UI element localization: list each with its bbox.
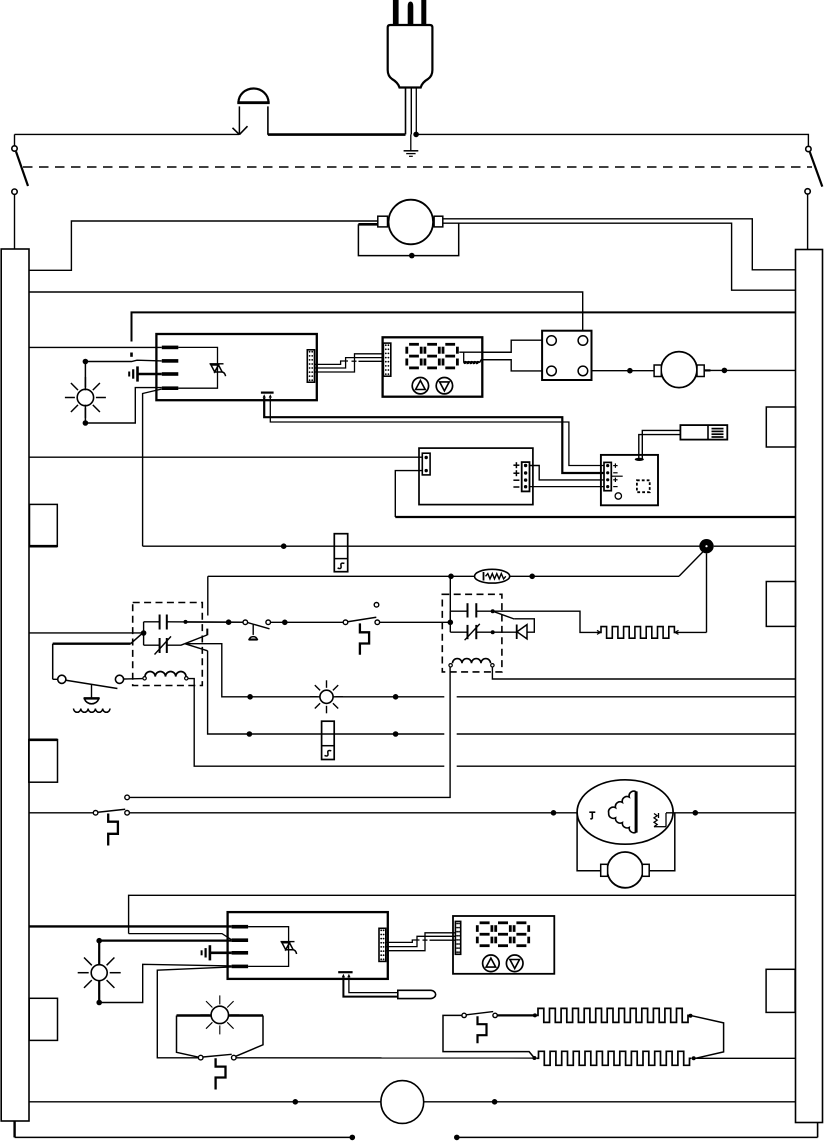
- wire: A4 pin4 to freezer defrost indicator circuit: [157, 967, 231, 1058]
- A1 pin 3: [162, 372, 179, 376]
- A3 mounting hole: [615, 493, 621, 499]
- wire: compressor to right bus: [666, 812, 796, 814]
- wire: L3 top to A4 pin2: [99, 939, 231, 941]
- lamp L1 (fresh food light): [65, 377, 106, 418]
- A1 internal wire loop: [178, 347, 217, 388]
- wire: node down to defrost heater: [706, 553, 708, 632]
- L3 top dot: [96, 938, 102, 944]
- wire: line N1 across top (y=312): [130, 353, 133, 357]
- wire: K1 tip to lamp line y=697: [185, 644, 796, 697]
- wire: bottom line y=1102 left: [29, 1101, 381, 1103]
- left bus connector block LB1: [30, 504, 58, 546]
- L1 bottom junction dot: [83, 420, 89, 426]
- switch S6 (defrost indicator switch): [198, 1054, 236, 1060]
- chassis boundary dashed line: [23, 166, 812, 168]
- wire: S3 to changeover S4: [271, 621, 344, 623]
- K1 top contact output wire: [167, 621, 243, 623]
- wire: oval line drop to relay K1 arm: [207, 576, 209, 615]
- S7 bracket to heater R2: [443, 1015, 534, 1058]
- K1 NO contact: [160, 615, 167, 630]
- right bus connector block RB1: [766, 407, 795, 447]
- wire: K2 NO output to defrost heater R3: [493, 611, 600, 632]
- wire: K2 coil left to thermostat throw: [129, 667, 450, 797]
- K1 NC contact with slash: [155, 636, 172, 654]
- L4 bracket: [177, 1016, 264, 1058]
- A1 pin 1: [162, 346, 179, 350]
- fan M4: [381, 1081, 424, 1124]
- L1 top junction dot: [83, 359, 89, 365]
- R2 start dot: [532, 1056, 536, 1060]
- wire: left bus to A2 pin1: [29, 456, 422, 458]
- changeover switch S4: [343, 603, 379, 625]
- sensor wire A1 to A3 (thin): [270, 398, 604, 466]
- R1 start dot: [533, 1013, 537, 1017]
- wire: A2 pin2 riser: [395, 471, 422, 517]
- wires A2 to A3: [530, 466, 605, 487]
- thermostat S5 (cold control): [93, 795, 129, 815]
- wire: oval fuse line y=576: [208, 575, 679, 577]
- right bus connector block RB3: [766, 969, 795, 1012]
- D2 seven-segment digit 3: [514, 923, 529, 946]
- D1 connector: [383, 343, 390, 376]
- A2 input connector: [422, 453, 430, 475]
- left bus bottom stem: [13, 1121, 15, 1137]
- junction dot oval fuse line left: [448, 574, 454, 580]
- junction dot cord / line wire: [413, 132, 419, 138]
- D1 seven-segment digit 1: [407, 344, 421, 368]
- chevron bracket joining R1 and R2: [692, 1016, 724, 1059]
- L3 stems: [98, 941, 100, 1003]
- A4 earth symbol: [202, 945, 232, 960]
- A3 input connector: [604, 462, 611, 490]
- plug-in arrow: [233, 126, 248, 134]
- K1 left wiring: [144, 622, 160, 645]
- A2 output connector: [522, 462, 530, 491]
- right bus bottom stem: [817, 1123, 819, 1138]
- socket symbol (dome): [237, 89, 269, 135]
- wire: left bus to terminal block TB: [29, 292, 583, 331]
- wire: S2 lower terminal to right bus top: [807, 194, 809, 249]
- board A2 (power supply): [419, 448, 533, 505]
- motor M2 (evaporator fan): [654, 352, 704, 388]
- wire: S5 to compressor line: [129, 812, 591, 814]
- A1 output connector: [307, 350, 314, 382]
- S3 terminal dot left: [226, 619, 232, 625]
- door switch DS: [53, 675, 143, 688]
- S5 heater hook: [108, 814, 118, 846]
- defrost heater R2: [537, 1051, 692, 1065]
- wire: K1 coil right to line y=766: [188, 679, 796, 767]
- R2 end dot: [692, 1056, 696, 1060]
- A4 pin 1: [232, 925, 249, 929]
- D1 up button: [412, 378, 428, 394]
- control board A4 (freezer control): [228, 912, 388, 979]
- disconnect switch S1 (left): [12, 146, 28, 195]
- start winding motor M3: [601, 852, 650, 888]
- A3 polarity labels: [611, 463, 622, 486]
- A1 pin 4: [162, 386, 179, 390]
- S3 terminal dot right: [282, 620, 288, 626]
- F3 line dot right: [393, 731, 399, 737]
- wire: line N2 (y=517) to right bus: [395, 516, 795, 518]
- D2 up button: [483, 955, 500, 972]
- wires: A1 to D1 ribbon: [315, 354, 384, 372]
- wire: left bus to thermostat S5: [29, 812, 93, 814]
- wire: K2 junction up to oval fuse line: [449, 576, 451, 622]
- A4 thermistor pins (T-T): [338, 972, 352, 977]
- wire: L1 stem bottom: [84, 405, 86, 423]
- R3 right arrow mark: [675, 630, 679, 634]
- sensor wire A1 to A3 (thick): [264, 398, 604, 473]
- D2 connector: [455, 921, 460, 954]
- wire: socket to plug cord (thick): [268, 133, 406, 136]
- right bus connector block RB2: [766, 582, 795, 627]
- A4 pin 4: [232, 965, 249, 969]
- A1 pin 2: [162, 359, 179, 363]
- wire: S6 to heater R2 start: [236, 1057, 534, 1059]
- wires A4 to D2 ribbon: [386, 933, 456, 951]
- K2 NO contact: [468, 603, 477, 617]
- K2 diode D1: [517, 625, 527, 640]
- junction dot fuse line: [281, 543, 287, 549]
- fan line dot left: [293, 1099, 299, 1105]
- defrost thermal cutout F2 (oval): [475, 569, 510, 583]
- wire: left bus to motor M1: [29, 221, 378, 270]
- lamp L3 (freezer light 2): [78, 951, 121, 994]
- heater switch S7: [462, 1012, 497, 1018]
- wire: K1 arm down to line y=734: [208, 651, 796, 734]
- power cord: [406, 88, 417, 135]
- wires A3 to jack J1: [639, 430, 681, 459]
- bottom return dot right: [454, 1135, 460, 1141]
- K2 junction dot: [448, 620, 454, 626]
- S7 heater hook: [478, 1016, 487, 1043]
- temperature probe RT: [398, 990, 436, 998]
- display board D1 (fresh food display): [383, 337, 483, 396]
- bottom return line left segment: [15, 1136, 353, 1138]
- thermal fuse F3: [322, 721, 335, 759]
- relay K2 dashed box: [442, 594, 502, 672]
- A4 pin 2: [232, 938, 249, 942]
- K1 coil: [143, 671, 188, 680]
- thermal fuse F1: [334, 534, 347, 572]
- motor M1 bracket: [358, 223, 458, 255]
- terminal block TB: [542, 331, 591, 380]
- wire: node diagonal to oval fuse line: [679, 552, 703, 577]
- D1 output squiggle: [459, 352, 511, 364]
- wire: left bus to K1: [29, 632, 144, 634]
- defrost heater R1: [536, 1008, 690, 1022]
- ground symbol: [404, 134, 419, 156]
- A4 triac Q2: [281, 942, 297, 954]
- A4 internal wire loop: [248, 927, 289, 967]
- K1 bottom contact to arm tip: [167, 644, 185, 646]
- L2 line dot right: [393, 694, 399, 700]
- F3 line dot left: [247, 731, 253, 737]
- jack J1 (sensor connector): [680, 425, 727, 440]
- wire: compressor left to M3: [577, 814, 601, 871]
- wire: fuse line y=546: [143, 545, 707, 547]
- wire: compressor right to M3: [649, 813, 675, 871]
- thick wire: door switch riser to K1: [53, 633, 144, 644]
- wire: M1 to right bus lower: [443, 223, 796, 290]
- right bus bar: [796, 250, 823, 1123]
- A3 sensor pad: [635, 458, 644, 461]
- heat marks under door switch: [74, 709, 111, 713]
- L3 bottom dot: [96, 1000, 102, 1006]
- fan line dot right: [492, 1099, 498, 1105]
- S4 heater hook: [360, 623, 369, 654]
- D1 down button: [436, 378, 452, 394]
- wire: S7 to heater R1: [497, 1014, 536, 1016]
- wire: L1 bottom to A1 pin4: [85, 388, 161, 423]
- left bus bar: [1, 249, 29, 1121]
- wire: S1 lower terminal to left bus top: [14, 195, 16, 250]
- K2 NC contact wire: [476, 631, 516, 633]
- wire: M2 to right bus: [704, 369, 795, 371]
- S6 heater hook: [216, 1058, 226, 1089]
- A4 pin 3: [232, 951, 249, 955]
- wire: left disconnect to socket arrow: [15, 133, 240, 135]
- defrost heater R3: [600, 627, 676, 639]
- wire: A1 pin4 down to fuse line: [143, 389, 162, 546]
- K1 arm: [185, 629, 208, 651]
- junction dot TB-M2: [627, 368, 633, 374]
- wire: TB to motor M2: [592, 370, 655, 372]
- defrost bimetal switch S3: [186, 621, 243, 623]
- K2 arm: [476, 611, 534, 632]
- wire: riser to A4 pin2: [129, 934, 232, 940]
- A1 earth symbol: [129, 366, 162, 381]
- left bus connector block LB2: [29, 740, 58, 783]
- K1 junction dot: [141, 630, 147, 636]
- wire: R2 end to right bus: [694, 1057, 796, 1059]
- compressor line dot left: [551, 810, 557, 816]
- wire: R3 to node vertical: [676, 631, 707, 633]
- A1 triac Q1: [210, 364, 226, 376]
- R3 left arrow mark: [597, 630, 601, 634]
- lamp L2 (freezer light): [310, 680, 343, 713]
- motor M1 (condenser fan): [378, 200, 443, 245]
- junction dot oval fuse line right: [529, 574, 535, 580]
- wire: K2 coil right to line y=679: [492, 667, 795, 679]
- wire: left bus to A4 pin1: [29, 925, 232, 927]
- bottom return line right segment: [457, 1136, 818, 1138]
- wire: L3 bottom to A4 pin4: [99, 964, 231, 1002]
- wire: S4 to relay K2: [380, 621, 451, 623]
- L2 line dot left: [247, 694, 253, 700]
- bottom return dot left: [350, 1135, 356, 1141]
- wire: M1 to right bus upper: [443, 219, 796, 270]
- D2 seven-segment digit 2: [496, 923, 511, 946]
- K2 left wiring: [450, 611, 467, 632]
- K2 NC contact with slash: [465, 624, 480, 640]
- relay K1 dashed box: [133, 603, 203, 686]
- power plug P1: [388, 0, 433, 88]
- K2 NC wire dot: [491, 630, 495, 634]
- wires: D1 to terminal block: [482, 340, 542, 371]
- board A3 (inverter/control): [601, 455, 658, 505]
- K2 coil: [449, 659, 494, 667]
- disconnect switch S2 (right): [805, 146, 822, 194]
- wire: plug dot to right disconnect switch: [416, 134, 808, 145]
- D1 seven-segment digit 3: [443, 344, 457, 368]
- A4 output connector: [379, 928, 386, 961]
- A2 polarity labels: [513, 462, 519, 487]
- big junction node: [699, 539, 713, 553]
- wire: L1 stem top: [84, 362, 86, 391]
- wire: line y=622 segment 1: [242, 621, 244, 623]
- junction dot M1 bracket: [409, 253, 415, 259]
- wire: L1 top to A1 pin2: [85, 360, 161, 361]
- R1 end dot: [689, 1014, 693, 1018]
- D2 down button: [506, 955, 523, 972]
- lamp L4 (defrost indicator): [200, 995, 239, 1034]
- K2 arm pivot dot: [491, 609, 495, 613]
- D1 seven-segment digit 2: [425, 344, 439, 368]
- wire: node to right bus: [714, 545, 796, 547]
- A1 thermistor pins (T-T): [261, 393, 274, 398]
- door switch actuator dome: [84, 684, 100, 704]
- left bus connector block LB3: [29, 998, 57, 1040]
- control board A1 (fresh food control): [156, 334, 316, 400]
- junction dot M2-bus: [722, 368, 728, 374]
- compressor COMP: [577, 780, 673, 844]
- D2 seven-segment digit 1: [477, 923, 492, 946]
- display board D2 (freezer display): [453, 916, 554, 974]
- probe wires: [343, 977, 397, 996]
- wire: bottom line y=1102 right: [424, 1101, 796, 1103]
- compressor line dot right: [693, 810, 699, 816]
- A3 IC dashed square: [637, 480, 650, 492]
- wire: line y=895 to right bus: [129, 895, 796, 933]
- K1 output terminal dot: [184, 620, 188, 624]
- wire: left bus to A1 pin1 (lamp line): [29, 346, 162, 348]
